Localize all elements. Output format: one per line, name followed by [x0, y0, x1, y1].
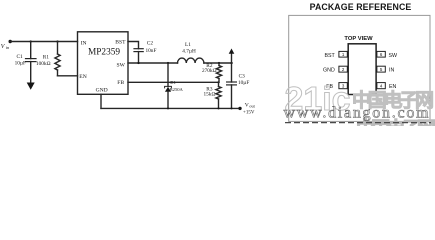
svg-text:BST: BST: [324, 53, 335, 59]
svg-text:GND: GND: [323, 68, 335, 74]
svg-text:100kΩ: 100kΩ: [36, 61, 51, 67]
pin 3 pad: [339, 83, 347, 89]
pin 2 pad: [339, 66, 347, 72]
diode D1: [165, 63, 172, 108]
node R2 junction: [218, 62, 220, 64]
wire R1 to EN pin: [58, 75, 78, 77]
node C3 ground junction: [231, 107, 233, 109]
wire FB line: [128, 81, 219, 83]
node C3 junction: [230, 62, 232, 64]
inductor L1: [178, 58, 204, 63]
resistor R3: [216, 82, 221, 108]
svg-text:B250A: B250A: [170, 87, 184, 92]
node Vout arrow terminal: [229, 49, 235, 64]
node D1-SW junction: [167, 62, 169, 64]
svg-text:EN: EN: [389, 84, 397, 90]
svg-text:4.7µH: 4.7µH: [182, 48, 196, 54]
op-amp U1 MP2359 body: [78, 32, 129, 95]
svg-text:out: out: [249, 103, 255, 108]
pin 1 pad: [339, 51, 347, 57]
svg-text:V: V: [245, 103, 249, 109]
ground (input): [27, 83, 35, 90]
node Vin input terminal: [9, 40, 12, 43]
node C2-SW junction: [137, 62, 139, 64]
svg-text:GND: GND: [96, 87, 108, 93]
svg-text:www.diangon.com: www.diangon.com: [284, 105, 430, 122]
svg-text:BST: BST: [115, 40, 126, 46]
node R3 ground junction: [218, 107, 220, 109]
svg-text:TOP VIEW: TOP VIEW: [344, 36, 373, 42]
svg-text:15kΩ: 15kΩ: [204, 91, 216, 97]
package body: [348, 44, 376, 95]
wire BST stub: [128, 42, 139, 49]
svg-text:EN: EN: [79, 74, 86, 80]
svg-text:L1: L1: [185, 42, 191, 48]
node D1 ground junction: [167, 107, 169, 109]
wire ground rail: [101, 107, 240, 109]
svg-text:D1: D1: [170, 80, 176, 85]
svg-text:10nF: 10nF: [146, 48, 157, 54]
svg-text:SW: SW: [389, 53, 398, 59]
svg-text:R1: R1: [43, 55, 50, 61]
svg-text:C1: C1: [17, 54, 24, 60]
svg-text:IN: IN: [389, 68, 394, 74]
capacitor C3: [227, 63, 237, 108]
node R1 junction: [56, 40, 58, 42]
pin 5 pad: [377, 66, 385, 72]
svg-text:270kΩ: 270kΩ: [202, 68, 217, 74]
svg-text:PACKAGE REFERENCE: PACKAGE REFERENCE: [310, 2, 412, 12]
wire SW line: [128, 62, 178, 64]
svg-text:+15V: +15V: [243, 110, 255, 115]
watermark underline: [285, 122, 431, 124]
wire L1 to output: [204, 62, 232, 64]
svg-text:FB: FB: [117, 80, 124, 86]
resistor R1: [55, 42, 60, 76]
node C1 junction: [30, 40, 32, 42]
node output terminal dot: [238, 107, 241, 110]
wire input rail to IN pin: [10, 41, 77, 43]
svg-text:10µF: 10µF: [15, 60, 26, 66]
pin 4 pad: [377, 83, 385, 89]
svg-text:SW: SW: [117, 62, 126, 68]
resistor R2: [216, 63, 221, 82]
capacitor C2: [134, 49, 143, 63]
pin 6 pad: [377, 51, 385, 57]
svg-text:10µF: 10µF: [238, 80, 249, 86]
capacitor C1: [26, 42, 37, 83]
svg-text:IN: IN: [81, 41, 87, 47]
package reference panel border: [289, 15, 430, 121]
svg-text:MP2359: MP2359: [88, 47, 120, 57]
svg-text:C2: C2: [147, 40, 154, 46]
svg-text:C3: C3: [239, 73, 246, 79]
node FB divider junction: [217, 81, 219, 83]
wire GND stub: [100, 94, 102, 108]
